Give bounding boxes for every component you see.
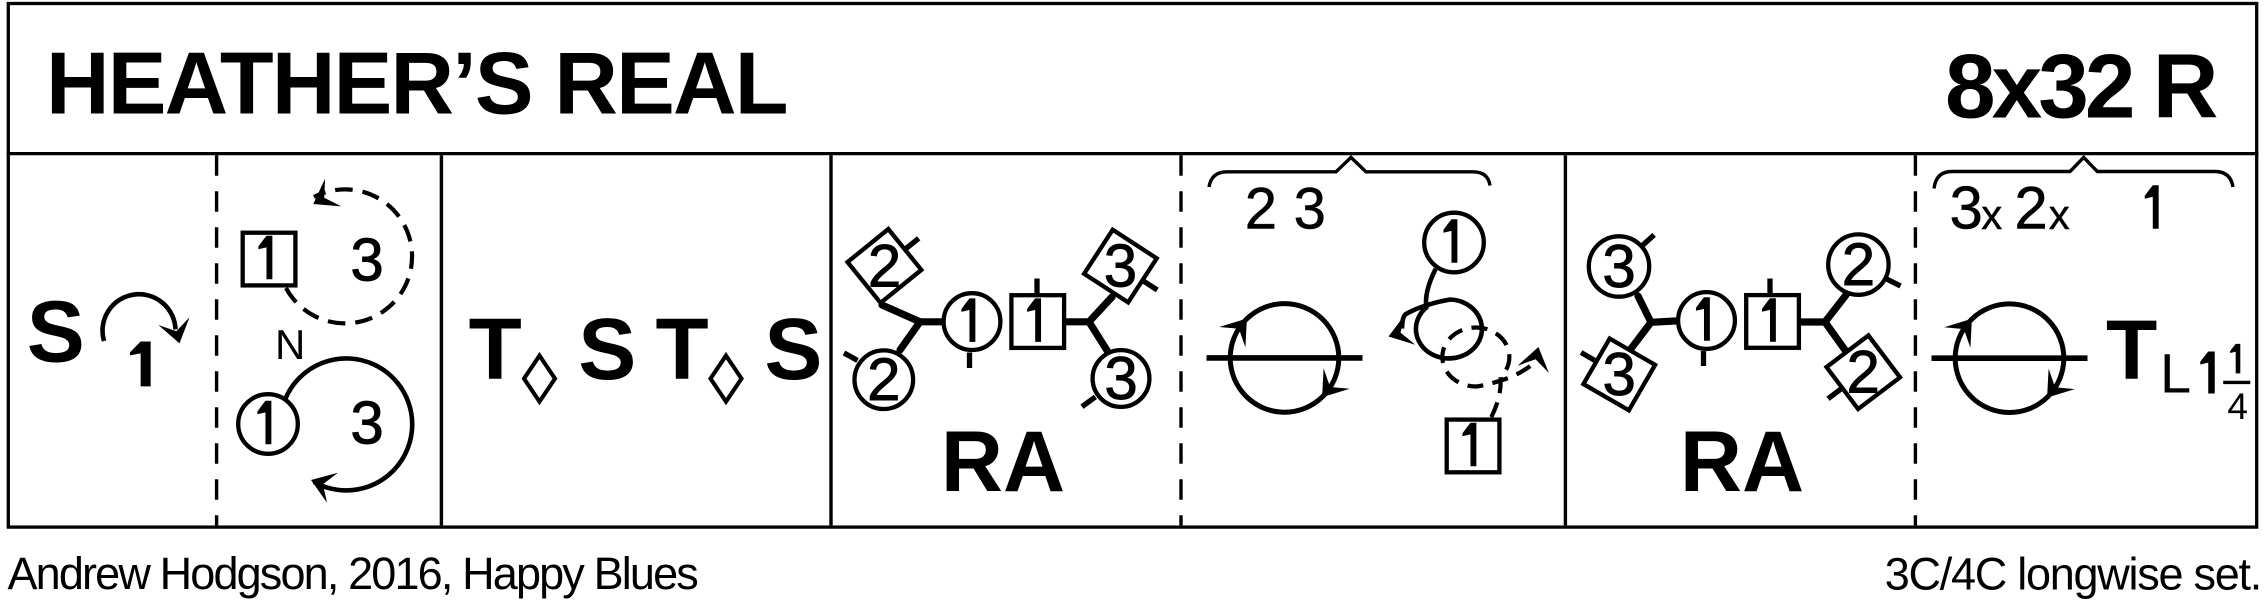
diamond 3M bbox=[1583, 339, 1655, 411]
cell separator dashed 6 bbox=[1914, 155, 1917, 525]
svg-text:3: 3 bbox=[1294, 177, 1326, 242]
circle 1W bbox=[944, 293, 1001, 350]
node 1M cast (dashed) bbox=[286, 189, 412, 323]
wire right wheel bbox=[1066, 318, 1089, 325]
wire bbox=[1219, 319, 1247, 348]
svg-text:2: 2 bbox=[2014, 175, 2047, 242]
svg-text:4: 4 bbox=[2227, 386, 2248, 427]
svg-text:3: 3 bbox=[1602, 233, 1635, 300]
node 1 bbox=[2145, 185, 2159, 229]
svg-text:L: L bbox=[2160, 342, 2191, 405]
svg-text:S: S bbox=[764, 301, 822, 398]
svg-text:T: T bbox=[2106, 303, 2157, 397]
svg-text:3C/4C longwise set.: 3C/4C longwise set. bbox=[1885, 549, 2261, 600]
svg-text:T: T bbox=[656, 301, 709, 398]
svg-text:S: S bbox=[578, 301, 636, 398]
wire bbox=[2047, 369, 2075, 398]
cell separator solid 5 bbox=[1564, 155, 1567, 525]
svg-text:HEATHER’S REAL: HEATHER’S REAL bbox=[46, 34, 787, 133]
wire bbox=[1955, 304, 2064, 413]
svg-text:2: 2 bbox=[1847, 339, 1880, 406]
circle 3W bbox=[1093, 350, 1150, 407]
svg-text:RA: RA bbox=[941, 414, 1065, 510]
circle 2W bbox=[855, 350, 914, 409]
cell separator solid 2 bbox=[440, 155, 443, 525]
svg-text:Andrew Hodgson, 2016, Happy Bl: Andrew Hodgson, 2016, Happy Blues bbox=[8, 548, 698, 599]
svg-text:x: x bbox=[1981, 191, 2002, 238]
diamond 2M bbox=[1827, 335, 1901, 409]
square 1M bbox=[1447, 420, 1500, 473]
svg-text:3: 3 bbox=[350, 227, 383, 294]
circle 1W bbox=[1424, 213, 1484, 273]
wire bbox=[1932, 355, 2088, 361]
node 1W cast (solid) bbox=[286, 358, 413, 490]
svg-text:T: T bbox=[469, 301, 522, 398]
title divider bbox=[7, 152, 2259, 155]
node 1W loop solid bbox=[1402, 269, 1482, 359]
diamond 2M bbox=[848, 229, 922, 303]
wire bbox=[1230, 304, 1339, 413]
square 1M bbox=[1011, 295, 1064, 348]
circle 3W bbox=[1589, 236, 1649, 296]
svg-text:N: N bbox=[275, 321, 305, 368]
circle 1W bbox=[238, 394, 298, 454]
wire bbox=[1322, 368, 1350, 397]
wire bbox=[1207, 355, 1363, 361]
svg-text:3: 3 bbox=[1603, 341, 1636, 408]
svg-text:3: 3 bbox=[350, 390, 383, 457]
svg-text:S: S bbox=[27, 284, 85, 381]
wire bbox=[103, 294, 176, 341]
brace 3x 2x 1 bbox=[1934, 157, 2233, 188]
svg-text:3: 3 bbox=[1104, 232, 1137, 299]
cell separator dashed 4 bbox=[1179, 155, 1182, 525]
circle 2W bbox=[1828, 234, 1888, 294]
svg-text:RA: RA bbox=[1680, 414, 1804, 510]
svg-text:2: 2 bbox=[868, 232, 901, 299]
square 1M bbox=[1746, 295, 1799, 348]
wire left wheel bbox=[920, 318, 944, 325]
svg-text:8x32 R: 8x32 R bbox=[1945, 37, 2217, 138]
circle 1W bbox=[1678, 292, 1735, 349]
svg-text:3: 3 bbox=[1950, 175, 1983, 242]
wire bbox=[1944, 319, 1972, 348]
node 1M loop dashed bbox=[1442, 328, 1532, 418]
svg-text:2: 2 bbox=[867, 346, 900, 413]
diamond 3M bbox=[1084, 230, 1157, 303]
square 1M bbox=[243, 233, 296, 286]
brace 2 3 bbox=[1209, 157, 1490, 187]
node 1 bbox=[130, 342, 151, 387]
svg-text:x: x bbox=[2049, 191, 2070, 238]
cell separator solid 3 bbox=[829, 155, 832, 525]
svg-text:3: 3 bbox=[1104, 345, 1137, 412]
svg-text:2: 2 bbox=[1842, 231, 1875, 298]
svg-text:2: 2 bbox=[1245, 177, 1277, 242]
wire left wheel bbox=[1651, 321, 1675, 322]
wire right wheel bbox=[1802, 318, 1825, 325]
cell separator dashed 1 bbox=[215, 155, 218, 525]
